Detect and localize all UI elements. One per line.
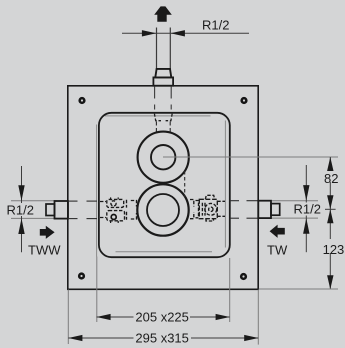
right pipe inside box — [230, 201, 258, 219]
label 82 background — [322, 168, 341, 182]
hidden union nut marks below panel edge — [154, 114, 172, 121]
valve TWW stem ticks — [111, 197, 119, 223]
extension line box left — [67, 290, 69, 345]
wire top supply pipe walls — [157, 28, 171, 70]
node center line 82 — [163, 156, 338, 158]
top circle inner — [151, 145, 175, 169]
top R1/2 dimension line — [122, 32, 249, 34]
bottom circle inner — [147, 194, 179, 226]
left R1/2 dimension line — [21, 166, 23, 252]
label 205x225 background — [134, 310, 191, 324]
dim arrowhead right 205 — [216, 314, 230, 320]
top dim arrowhead right — [171, 30, 185, 36]
dim line 295x315 — [68, 337, 258, 339]
right R1/2 dimension line — [305, 165, 307, 252]
label 295x315 background — [134, 331, 192, 345]
plaster frame gray rounded rect — [97, 116, 226, 257]
svg-text:295 x315: 295 x315 — [135, 331, 189, 346]
junction tick at valve axis — [325, 208, 336, 210]
screw bottom-left — [78, 272, 85, 279]
right supply extension lines — [272, 201, 318, 218]
svg-text:82: 82 — [324, 171, 338, 186]
top dim arrowhead left — [142, 30, 156, 36]
top pipe nut — [155, 69, 171, 78]
arrow TW flow — [270, 225, 285, 238]
dim 82/123 vertical line — [329, 157, 331, 289]
screw bottom-right — [240, 273, 247, 280]
bottom circle outer — [137, 184, 188, 235]
screw top-right — [240, 97, 247, 104]
valve TWW hidden ball dot — [111, 215, 116, 220]
hidden pipe inside box top — [155, 86, 172, 112]
left supply extension lines — [11, 201, 57, 219]
extension line block left — [96, 257, 98, 323]
right pipe cap — [271, 204, 280, 216]
screw top-left — [78, 97, 85, 104]
dim arrowhead left 205 — [97, 314, 111, 320]
label R1/2 left — [5, 203, 38, 216]
top pipe collar — [153, 77, 173, 85]
top circle outer — [138, 132, 189, 183]
svg-text:205 x225: 205 x225 — [135, 310, 189, 325]
arrow TWW flow — [40, 226, 55, 239]
dim arrow up to center line — [327, 157, 333, 171]
right dim arrowhead down — [303, 185, 309, 201]
dim arrowhead up from valve axis — [327, 209, 333, 223]
svg-text:R1/2: R1/2 — [294, 202, 321, 217]
svg-text:TWW: TWW — [28, 243, 61, 258]
dim arrowhead down to valve axis — [327, 195, 333, 209]
left pipe inside box — [68, 201, 97, 219]
right dim arrowhead up — [303, 218, 309, 234]
extension line block right — [229, 258, 231, 322]
function block rounded rect — [99, 113, 230, 257]
dim arrowhead down to box bottom — [327, 275, 333, 289]
left pipe collar — [55, 201, 69, 219]
dim line 205x225 — [97, 316, 230, 318]
dim arrowhead right 295 — [244, 335, 258, 341]
left dim arrowhead up — [18, 218, 24, 234]
svg-text:R1/2: R1/2 — [7, 203, 34, 218]
valve TW hidden assembly — [190, 195, 225, 221]
left pipe cap — [46, 204, 55, 216]
right pipe collar — [258, 201, 271, 218]
svg-text:R1/2: R1/2 — [202, 18, 229, 33]
hidden edge right of top circle — [184, 171, 186, 197]
svg-text:TW: TW — [267, 243, 288, 258]
top outlet direction arrow — [154, 6, 172, 21]
node box bottom extension right — [259, 288, 338, 290]
hidden pipe to cartridge — [156, 122, 170, 132]
left dim arrowhead down — [18, 185, 24, 201]
dim arrowhead left 295 — [68, 335, 82, 341]
svg-text:123: 123 — [323, 242, 345, 257]
outer wall box — [68, 86, 258, 289]
label R1/2 right — [291, 203, 324, 216]
extension line box right — [257, 290, 259, 345]
label 123 background — [322, 239, 345, 253]
valve TWW hidden assembly — [100, 199, 137, 220]
